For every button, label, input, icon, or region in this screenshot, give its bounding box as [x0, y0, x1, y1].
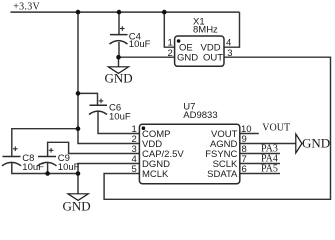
node junction rail / X1 OE: [162, 10, 167, 15]
svg-text:GND: GND: [105, 71, 133, 86]
svg-text:10uF: 10uF: [58, 162, 80, 173]
node junction C4 / X1 GND / ground: [116, 55, 121, 60]
node junction rail / C4: [117, 10, 122, 15]
capacitor C8: [2, 147, 21, 166]
node junction C8 tap: [76, 126, 81, 131]
svg-text:SDATA: SDATA: [207, 169, 238, 180]
wire rail tap to X1 OE pin1: [164, 12, 174, 47]
wire C9 bottom: [47, 162, 49, 174]
wire C9 top bracket to U7 CAP pin3: [48, 142, 140, 156]
svg-text:+3.3V: +3.3V: [13, 2, 40, 13]
svg-text:MCLK: MCLK: [142, 169, 169, 180]
svg-text:2: 2: [168, 48, 173, 59]
svg-text:GND: GND: [302, 136, 330, 151]
svg-text:OUT: OUT: [203, 53, 223, 64]
svg-text:1: 1: [168, 38, 173, 49]
svg-text:4: 4: [226, 38, 231, 49]
wire U7 AGND to GND flag: [240, 143, 296, 145]
wire U7 SDATA stub PA5: [240, 173, 280, 175]
capacitor C4: [110, 26, 128, 44]
node junction C9 / ground rail: [45, 171, 50, 176]
capacitor C6: [89, 99, 107, 115]
wire C8 bottom to GND junction: [12, 162, 78, 174]
ground bottom left: [68, 194, 88, 201]
node junction rail / VDD branch: [76, 10, 81, 15]
wire junction to GND symbol: [118, 57, 120, 67]
svg-text:10uF: 10uF: [129, 39, 151, 50]
svg-text:GND: GND: [63, 198, 91, 213]
svg-text:PA5: PA5: [261, 164, 278, 175]
ground below C4: [108, 67, 128, 74]
node junction DGND / ground: [76, 171, 81, 176]
wire C4 top: [118, 12, 120, 34]
svg-text:AD9833: AD9833: [183, 110, 217, 121]
wire U7 VOUT stub: [240, 133, 259, 135]
ground flag right: [296, 134, 302, 153]
node junction C6 tap: [76, 91, 81, 96]
wire U7 SCLK stub PA4: [240, 163, 280, 165]
wire C6 bottom to U7 COMP pin1: [98, 111, 139, 134]
svg-text:5: 5: [132, 164, 137, 175]
svg-text:10uF: 10uF: [109, 112, 131, 123]
wire rail corner down to X1 VDD pin4: [224, 12, 240, 47]
svg-text:GND: GND: [177, 53, 198, 64]
capacitor C9: [38, 148, 57, 166]
wire X1 OUT loop to U7 MCLK pin5: [104, 57, 330, 199]
wire C4 bottom to junction: [118, 42, 120, 57]
wire +3.3V rail: [10, 11, 239, 13]
svg-text:6: 6: [242, 164, 247, 175]
wire U7 DGND pin4 to GND: [78, 164, 139, 194]
svg-text:VOUT: VOUT: [262, 123, 290, 134]
wire vertical x=78 rail to U7 VDD pin2: [78, 12, 139, 143]
wire U7 FSYNC stub PA3: [240, 153, 280, 155]
wire junction to X1 GND pin2: [119, 56, 175, 58]
wire C6 top from x=78: [78, 93, 98, 105]
wire C8 top from x=78: [12, 129, 78, 157]
svg-text:8MHz: 8MHz: [193, 25, 218, 36]
svg-text:3: 3: [227, 48, 232, 59]
